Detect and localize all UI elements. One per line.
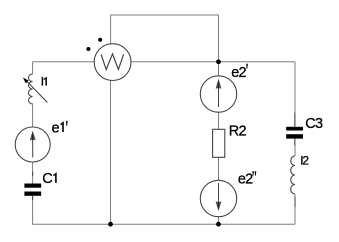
svg-text:C: C: [42, 171, 52, 187]
svg-text:C3: C3: [305, 116, 323, 132]
svg-text:e2: e2: [231, 65, 246, 81]
svg-text:R2: R2: [229, 124, 247, 140]
svg-text:e: e: [52, 120, 60, 136]
svg-text:e2: e2: [238, 171, 253, 187]
svg-text:2: 2: [302, 154, 309, 168]
svg-text:I: I: [41, 75, 44, 89]
